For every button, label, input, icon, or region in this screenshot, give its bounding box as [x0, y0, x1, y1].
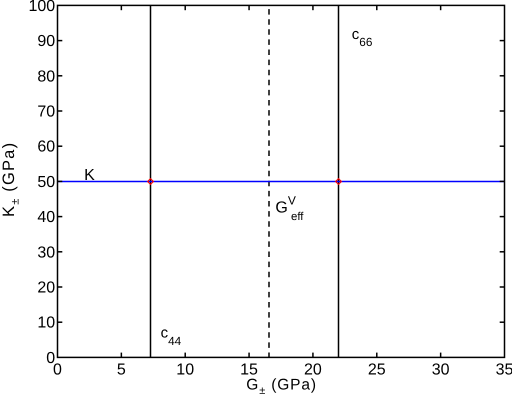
svg-text:5: 5	[117, 362, 126, 379]
vertical line c44	[150, 5, 152, 357]
svg-text:100: 100	[28, 0, 55, 15]
svg-text:25: 25	[368, 362, 386, 379]
vertical line c66	[338, 5, 340, 357]
svg-text:50: 50	[37, 174, 55, 191]
svg-text:K: K	[84, 167, 95, 184]
marker diamond 2	[336, 179, 342, 185]
svg-text:eff: eff	[291, 211, 304, 223]
svg-text:20: 20	[37, 280, 55, 297]
dashed vertical line Geff	[268, 5, 270, 357]
y ticks left	[58, 41, 63, 323]
horizontal line K	[58, 180, 505, 182]
svg-text:10: 10	[37, 315, 55, 332]
y tick labels	[28, 0, 55, 367]
svg-text:0: 0	[46, 350, 55, 367]
y ticks right	[500, 41, 505, 323]
svg-text:70: 70	[37, 104, 55, 121]
svg-text:30: 30	[432, 362, 450, 379]
x tick labels	[53, 362, 512, 379]
svg-text:10: 10	[176, 362, 194, 379]
svg-text:90: 90	[37, 33, 55, 50]
axes box	[58, 5, 505, 357]
svg-text:35: 35	[496, 362, 512, 379]
svg-text:60: 60	[37, 139, 55, 156]
marker diamond 1	[148, 179, 154, 185]
x ticks top	[121, 5, 440, 10]
svg-text:40: 40	[37, 209, 55, 226]
svg-text:30: 30	[37, 244, 55, 261]
x ticks bottom	[121, 353, 440, 358]
svg-text:80: 80	[37, 68, 55, 85]
